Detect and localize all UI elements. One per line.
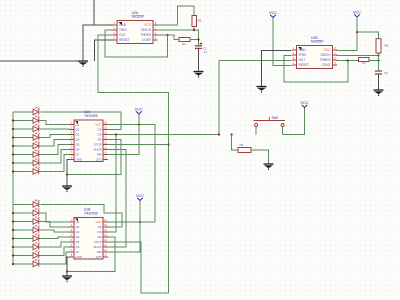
wire anode LED10	[13, 212, 33, 214]
svg-text:THRES: THRES	[140, 33, 151, 37]
wire to R7 left	[348, 60, 359, 62]
svg-text:Q2: Q2	[76, 128, 80, 132]
node R7/C3 junction	[377, 59, 379, 61]
wire R7 right to cap node	[369, 60, 379, 62]
wire DISCH pin7 U2A	[158, 29, 195, 31]
power symbol VCC VCC-U2B-reset	[270, 15, 276, 18]
wire cathode D2 to Q1 U3A	[39, 121, 69, 125]
svg-text:Q5: Q5	[76, 143, 80, 147]
svg-text:Q1: Q1	[76, 220, 80, 224]
svg-text:OUT: OUT	[299, 58, 306, 62]
wire OUT U2A long route to latch line	[98, 35, 169, 293]
wire C3 top lead	[378, 61, 380, 72]
wire cathode D11 to Q2 U3B	[39, 222, 69, 228]
svg-text:GND: GND	[76, 255, 82, 259]
capacitor C2	[195, 46, 202, 49]
svg-text:SHCP: SHCP	[93, 245, 101, 249]
wire DS branch down to U3B	[107, 135, 116, 233]
wire cathode D8 to Q7 U3A	[39, 155, 69, 172]
wire SW1 right leg to VCC	[283, 108, 305, 135]
svg-text:RESET: RESET	[299, 63, 310, 67]
wire cathode D4 to Q3 U3A	[39, 135, 69, 138]
wire GND pin1 U2A to ground	[83, 25, 113, 61]
wire R4 to ground	[251, 150, 269, 164]
LED D6	[33, 150, 40, 158]
wire VCC link down to U3B	[154, 125, 156, 223]
LED D3	[33, 124, 40, 132]
svg-text:VCC: VCC	[269, 11, 277, 15]
wire cathode D16 to Q7 U3B	[39, 252, 69, 264]
svg-text:DS: DS	[97, 133, 101, 137]
switch SW1	[254, 117, 286, 126]
wire VCC pin8 U2B to R6 top	[337, 32, 379, 51]
svg-text:R6: R6	[385, 44, 389, 48]
LED D4	[33, 133, 40, 141]
wire cathode D13 to Q4 U3B	[39, 237, 69, 239]
wire OE U3B to ground net	[67, 237, 115, 272]
power symbol VCC VCC-U2B	[354, 14, 360, 17]
node VCC U3B junction	[139, 221, 141, 223]
wire TRIG to THRES tie	[105, 30, 168, 57]
node R2/C2 junction	[197, 38, 199, 40]
resistor R5	[192, 16, 197, 27]
ground GND-U3A	[62, 186, 72, 192]
wire cathode D10 to Q1 U3B	[39, 213, 69, 222]
wire GND U3B	[67, 257, 74, 276]
wire anode LED8	[13, 171, 33, 173]
shift register U1A 74HC595	[74, 120, 103, 162]
svg-text:Q6: Q6	[76, 148, 80, 152]
wire TRIG-THRES tie U2B	[284, 56, 348, 83]
svg-text:Q7S: Q7S	[96, 255, 102, 259]
wire MR tie U3A	[108, 125, 139, 155]
svg-text:VCC: VCC	[324, 48, 331, 52]
wire Q0 over-the-top U3A	[41, 112, 122, 130]
svg-text:Q3: Q3	[76, 133, 80, 137]
svg-text:VCC: VCC	[136, 194, 144, 198]
resistor R6	[376, 39, 381, 53]
wire OE U3A to ground net	[67, 140, 121, 175]
node DS branch	[115, 133, 117, 135]
wire RESET pin4 U2A down to ground rail	[95, 40, 113, 61]
svg-text:CONT: CONT	[321, 63, 330, 67]
LED D5	[33, 141, 40, 149]
wire THRES pin6 U2A	[158, 34, 168, 36]
LED D9	[33, 200, 40, 208]
svg-text:STCP: STCP	[94, 240, 102, 244]
LED D10	[33, 208, 40, 216]
wire anode LED9	[13, 204, 33, 206]
ground GND-R4	[264, 164, 274, 170]
wire anode LED12	[13, 229, 33, 231]
wire VCC pin16 U3A	[108, 124, 155, 126]
wire SW1 left leg	[255, 127, 257, 135]
wire DS data line	[108, 134, 219, 136]
op-amp timer U2B NE555P	[297, 46, 333, 69]
svg-text:R5: R5	[198, 19, 202, 23]
wire THRES pin U2B	[337, 60, 348, 62]
svg-text:Q2: Q2	[76, 225, 80, 229]
svg-text:74HC595: 74HC595	[84, 114, 98, 118]
wire anode LED13	[13, 238, 33, 240]
LED D8	[33, 167, 40, 175]
svg-text:R2: R2	[362, 61, 366, 65]
svg-text:VCC: VCC	[353, 10, 361, 14]
svg-text:TRIG: TRIG	[119, 28, 127, 32]
wire R4 tee down	[232, 135, 238, 151]
svg-text:Q6: Q6	[76, 245, 80, 249]
svg-text:C3: C3	[384, 71, 388, 75]
svg-text:OE: OE	[97, 235, 101, 239]
resistor R7	[359, 58, 370, 62]
wire cathode D6 to Q5 U3A	[39, 145, 69, 155]
node THRES junction	[166, 34, 168, 36]
wire GND U3A	[67, 160, 74, 187]
svg-text:Q0: Q0	[98, 128, 102, 132]
svg-text:SHCP: SHCP	[93, 148, 101, 152]
wire cathode D15 to Q6 U3B	[39, 247, 69, 256]
wire VCC stem U3B	[139, 201, 141, 223]
wire anode LED7	[13, 162, 33, 164]
svg-text:VCC: VCC	[95, 220, 101, 224]
shift register U1B 74HC595	[74, 218, 103, 260]
op-amp timer U2A NE555P	[117, 21, 153, 44]
wire anode LED16	[13, 263, 33, 265]
LED D16	[33, 259, 40, 267]
wire anode LED14	[13, 246, 33, 248]
svg-text:MR: MR	[97, 250, 102, 254]
wire DISCH pin U2B	[337, 55, 379, 57]
LED D1	[33, 107, 40, 115]
svg-text:DISCH: DISCH	[321, 53, 332, 57]
wire R5 bottom to DISCH node	[193, 27, 195, 31]
svg-text:GND: GND	[299, 48, 307, 52]
wire OUT U2B to data node	[219, 61, 292, 135]
svg-text:VCC: VCC	[95, 123, 101, 127]
LED D13	[33, 234, 40, 242]
wire VCC to RESET U2B	[273, 18, 292, 66]
svg-text:CONT: CONT	[142, 38, 151, 42]
wire anode LED1	[13, 111, 33, 113]
power symbol VCC VCC-U3B	[137, 198, 143, 201]
wire VCC stem U3A	[138, 114, 140, 125]
svg-text:NE555P: NE555P	[132, 15, 145, 19]
LED D7	[33, 158, 40, 166]
node VCC/R6 junction	[356, 31, 358, 33]
svg-text:Q7: Q7	[76, 153, 80, 157]
LED D12	[33, 225, 40, 233]
node OUT-U2B/data junction	[218, 133, 220, 135]
wire DISCH node jog down to C2	[194, 30, 199, 46]
node latch junction	[167, 143, 169, 145]
wire anode LED3	[13, 128, 33, 130]
node OE/ground junction U3B	[66, 270, 68, 272]
wire VCC pin16 U3B	[107, 221, 155, 223]
svg-text:Q7: Q7	[76, 250, 80, 254]
wire anode LED6	[13, 154, 33, 156]
svg-text:Q7S: Q7S	[96, 158, 102, 162]
ground GND-U2B	[257, 87, 267, 93]
svg-text:DISCH: DISCH	[141, 28, 152, 32]
wire C2 to ground	[198, 48, 200, 71]
svg-text:MR: MR	[97, 153, 102, 157]
svg-text:GND: GND	[119, 23, 127, 27]
svg-text:OUT: OUT	[119, 33, 126, 37]
wire cathode D3 to Q2 U3A	[39, 128, 69, 131]
wire THRES to R2	[168, 35, 180, 40]
svg-text:STCP: STCP	[94, 143, 102, 147]
wire anode LED5	[13, 145, 33, 147]
svg-text:Q1: Q1	[76, 123, 80, 127]
wire MR tie U3B	[107, 222, 140, 252]
wire SHCP tie U3A-U3B	[107, 150, 126, 248]
resistor R2	[179, 38, 190, 42]
svg-text:GND: GND	[76, 158, 82, 162]
wire R2 to cap node	[190, 39, 199, 41]
wire anode LED2	[13, 120, 33, 122]
LED D14	[33, 242, 40, 250]
wire VCC stem U2B	[356, 17, 358, 32]
svg-text:1u: 1u	[204, 50, 208, 54]
svg-text:Q0: Q0	[98, 225, 102, 229]
svg-text:TRIG: TRIG	[299, 53, 307, 57]
ground GND-U3B	[62, 276, 72, 282]
power symbol VCC VCC-U3A	[136, 111, 142, 114]
wire anode LED15	[13, 255, 33, 257]
resistor R4	[238, 148, 251, 153]
node DISCH junction	[193, 29, 195, 31]
ground GND-C3	[374, 90, 384, 96]
wire top feed into GND net	[93, 0, 95, 25]
wire STCP U3A to latch line	[108, 144, 169, 146]
wire cathode D7 to Q6 U3A	[39, 150, 69, 164]
LED D11	[33, 217, 40, 225]
wire cathode D5 to Q4 U3A	[39, 140, 69, 147]
svg-text:SW1: SW1	[272, 116, 279, 120]
wire anode LED11	[13, 221, 33, 223]
node VCC U3A junction	[138, 123, 140, 125]
ground GND-C2	[194, 72, 204, 78]
wire Q0 over-the-top U3B	[41, 205, 123, 228]
LED D15	[33, 251, 40, 259]
node OE/ground junction	[66, 173, 68, 175]
power symbol VCC VCC-SW1	[302, 105, 308, 108]
LED D2	[33, 116, 40, 124]
node R4 tee	[231, 133, 233, 135]
wire cathode D12 to Q3 U3B	[39, 230, 69, 232]
svg-text:DS: DS	[97, 230, 101, 234]
svg-text:Q3: Q3	[76, 230, 80, 234]
svg-text:OE: OE	[97, 138, 101, 142]
capacitor C3	[375, 71, 382, 74]
svg-text:VCC: VCC	[135, 107, 143, 111]
svg-text:Q5: Q5	[76, 240, 80, 244]
wire LED anode bus	[12, 112, 14, 264]
wire VCC feed to pin8 U2A	[158, 6, 195, 25]
svg-text:THRES: THRES	[320, 58, 331, 62]
wire cathode D14 to Q5 U3B	[39, 242, 69, 247]
wire anode LED4	[13, 137, 33, 139]
wire STCP U3B from latch line	[107, 241, 141, 243]
svg-text:R4: R4	[240, 143, 244, 147]
wire R6 bottom lead	[378, 53, 380, 61]
wire ground rail left edge	[0, 60, 83, 62]
svg-text:Q4: Q4	[76, 138, 80, 142]
ground GND-U2A	[78, 61, 88, 67]
svg-text:RESET: RESET	[119, 38, 130, 42]
svg-text:R2: R2	[182, 42, 186, 46]
wire GND U2B to ground	[262, 51, 292, 87]
svg-text:VCC: VCC	[144, 23, 151, 27]
svg-text:VCC: VCC	[300, 101, 308, 105]
node THRES U2B junction	[347, 59, 349, 61]
svg-text:NE555P: NE555P	[311, 40, 324, 44]
wire C3 to ground	[378, 74, 380, 90]
svg-text:Q4: Q4	[76, 235, 80, 239]
svg-text:74HC595: 74HC595	[84, 211, 98, 215]
node DISCH U2B junction	[377, 54, 379, 56]
